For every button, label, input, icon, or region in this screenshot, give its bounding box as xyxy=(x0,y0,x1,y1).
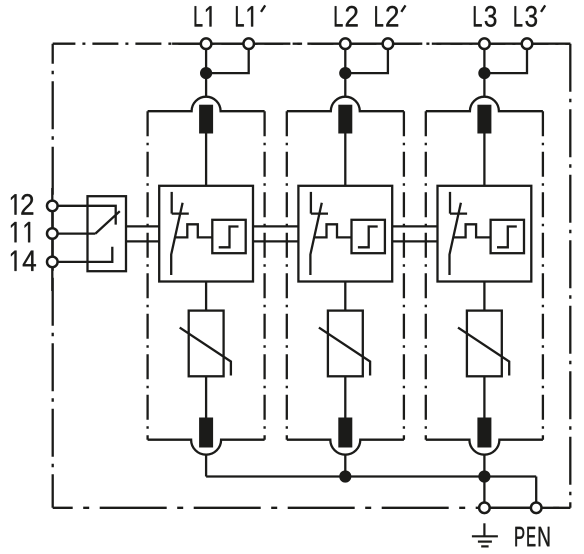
wire bus to PEN terminal xyxy=(535,477,537,508)
wire bus junction down to earth terminal xyxy=(483,477,485,508)
label L3&#180; xyxy=(515,6,538,27)
trigger step symbol (L3) xyxy=(497,227,517,248)
label L1&#180; xyxy=(236,6,253,26)
spark gap electrode lead (L2) xyxy=(310,192,312,214)
terminal L3&#180; (circle) xyxy=(522,38,533,49)
enclosure border bottom (dash-dot) xyxy=(53,507,571,509)
disconnect switch blade (L1) xyxy=(171,203,182,275)
terminal 12 (circle) xyxy=(47,201,58,212)
terminal L2&#180; (circle) xyxy=(383,38,394,49)
wire: left border solid segment at terminals 12/11/14 xyxy=(51,188,53,291)
terminal 11 (circle) xyxy=(47,228,58,239)
module L2 left boundary (dash-dot) xyxy=(286,111,288,440)
varistor diagonal stroke (L3) xyxy=(458,328,509,376)
wire L3&#180; terminal down and to junction xyxy=(484,44,527,73)
varistor diagonal stroke (L1) xyxy=(180,328,231,376)
mechanical linkage: module L1 to module L2 (lower) xyxy=(253,240,298,242)
module L2 bottom rail with plug-in arc xyxy=(287,440,404,455)
trigger unit box (L3) xyxy=(491,220,524,253)
varistor body (L3) xyxy=(467,311,502,377)
module L2 top rail with plug-in arc xyxy=(287,97,404,112)
thermal disconnector contact (top, L2) xyxy=(338,105,352,134)
triggered spark gap box (L2) xyxy=(298,186,392,282)
terminal 14 (circle) xyxy=(47,257,58,268)
pin label 12 xyxy=(11,194,33,215)
wire: bottom border solid segment at PEN terminals xyxy=(484,507,570,509)
triggered spark gap box (L1) xyxy=(159,186,253,282)
module L1 left boundary (dash-dot) xyxy=(146,111,148,440)
varistor diagonal stroke (L2) xyxy=(319,328,370,376)
wire spark-gap box to varistor xyxy=(205,282,207,311)
enclosure border right (dash-dot) xyxy=(569,44,571,508)
label L1 prime tick xyxy=(261,5,265,11)
wire junction to top plug contact xyxy=(344,73,346,97)
remote signalling contact box xyxy=(88,196,127,271)
wire: top border solid segment at L1/L1&#180; terminals xyxy=(172,43,283,45)
junction dot L1 xyxy=(200,67,212,79)
trigger unit box (L2) xyxy=(352,220,385,253)
terminal L1&#180; (circle) xyxy=(243,38,254,49)
mechanical linkage: module L2 to module L3 (upper) xyxy=(392,225,437,227)
node L3: phase column xyxy=(426,38,543,476)
mechanical linkage: module L2 to module L3 (lower) xyxy=(392,240,437,242)
wire terminal 12 to NC contact xyxy=(52,206,115,225)
label L2 xyxy=(335,6,358,27)
wire PEN bus xyxy=(206,475,536,477)
PEN terminal (circle) xyxy=(531,503,542,514)
wire spark-gap box to varistor xyxy=(344,282,346,311)
mechanical linkage: signalling contact to module L1 (lower) xyxy=(126,240,159,242)
spark gap fixed contact tick (L2) xyxy=(311,212,328,214)
wire varistor to bottom contact xyxy=(205,376,207,417)
varistor body (L2) xyxy=(328,311,363,377)
wire: top border dash between L1 and L2 groups xyxy=(293,43,303,45)
wire junction to top plug contact xyxy=(205,73,207,97)
wire junction to top plug contact xyxy=(483,73,485,97)
wire contact to spark-gap box xyxy=(205,134,207,186)
thermal disconnector contact (bottom, L2) xyxy=(338,418,352,448)
label L2 prime tick xyxy=(401,5,405,11)
label L2&#180; xyxy=(375,6,398,27)
wire contact to spark-gap box xyxy=(483,134,485,186)
node L1: phase column xyxy=(148,38,265,476)
junction dot L2 xyxy=(339,67,351,79)
wire spark-gap box to varistor xyxy=(483,282,485,311)
node L2: phase column xyxy=(287,38,404,476)
mechanical linkage: module L1 to module L2 (upper) xyxy=(253,225,298,227)
thermal disconnector contact (bottom, L3) xyxy=(477,418,491,448)
label L1 xyxy=(195,6,212,26)
wire bottom plug contact to PEN bus xyxy=(205,455,207,477)
pin label 14 xyxy=(11,251,36,271)
wire: top border solid segment at L2/L2&#180; terminals xyxy=(311,43,422,45)
spark gap electrode lead (L3) xyxy=(449,192,451,214)
module L3 bottom rail with plug-in arc xyxy=(426,440,543,455)
thermal disconnector contact (bottom, L1) xyxy=(199,418,213,448)
label L3 xyxy=(474,6,496,27)
wire L2 terminal to junction xyxy=(344,44,346,73)
terminal L2 (circle) xyxy=(340,38,351,49)
enclosure border left (dash-dot) xyxy=(52,44,54,508)
spark gap fixed contact tick (L3) xyxy=(450,212,467,214)
changeover switch blade xyxy=(95,211,119,233)
ground symbol xyxy=(472,523,498,546)
disconnect switch blade (L3) xyxy=(450,203,461,275)
varistor body (L1) xyxy=(189,311,224,377)
junction dot L3 xyxy=(478,67,490,79)
wire L1 terminal to junction xyxy=(205,44,207,73)
label L3 prime tick xyxy=(541,5,545,11)
trigger pulse link (L1) xyxy=(175,224,213,237)
label PEN xyxy=(515,527,549,546)
mechanical linkage: signalling contact to module L1 (upper) xyxy=(126,225,159,227)
disconnect switch blade (L2) xyxy=(310,203,321,275)
module L3 left boundary (dash-dot) xyxy=(425,111,427,440)
triggered spark gap box (L3) xyxy=(438,186,532,282)
wire L1&#180; terminal down and to junction xyxy=(206,44,249,73)
module L3 right boundary (dash-dot) xyxy=(542,111,544,440)
junction dot L2 on PEN bus xyxy=(339,470,351,482)
trigger pulse link (L2) xyxy=(314,224,352,237)
spark gap fixed contact tick (L1) xyxy=(172,212,189,214)
junction dot L3 on PEN bus xyxy=(478,470,490,482)
wire: top border solid segment at L3/L3&#180; terminals xyxy=(450,43,570,45)
wire varistor to bottom contact xyxy=(344,376,346,417)
module L3 top rail with plug-in arc xyxy=(426,97,543,112)
module L1 right boundary (dash-dot) xyxy=(263,111,265,440)
trigger step symbol (L1) xyxy=(219,227,239,248)
wire: top border dash between L2 and L3 groups xyxy=(432,43,442,45)
pin label 11 xyxy=(11,222,30,242)
terminal L3 (circle) xyxy=(479,38,490,49)
module L1 bottom rail with plug-in arc xyxy=(148,440,265,455)
wire contact to spark-gap box xyxy=(344,134,346,186)
earth terminal (circle) xyxy=(479,503,490,514)
spark gap electrode lead (L1) xyxy=(171,192,173,214)
module L2 right boundary (dash-dot) xyxy=(403,111,405,440)
wire varistor to bottom contact xyxy=(483,376,485,417)
terminal L1 (circle) xyxy=(201,38,212,49)
wire L2&#180; terminal down and to junction xyxy=(345,44,388,73)
module L1 top rail with plug-in arc xyxy=(148,97,265,112)
wire terminal 11 to switch pivot xyxy=(52,232,95,234)
wire L3 terminal to junction xyxy=(483,44,485,73)
trigger pulse link (L3) xyxy=(453,224,491,237)
wire bottom plug contact to PEN bus xyxy=(483,455,485,477)
wire bottom plug contact to PEN bus xyxy=(344,455,346,477)
enclosure border top (dash-dot) xyxy=(53,43,571,45)
thermal disconnector contact (top, L3) xyxy=(477,105,491,134)
trigger step symbol (L2) xyxy=(358,227,378,248)
wire terminal 14 to NO contact xyxy=(52,247,112,262)
trigger unit box (L1) xyxy=(212,220,245,253)
thermal disconnector contact (top, L1) xyxy=(199,105,213,134)
